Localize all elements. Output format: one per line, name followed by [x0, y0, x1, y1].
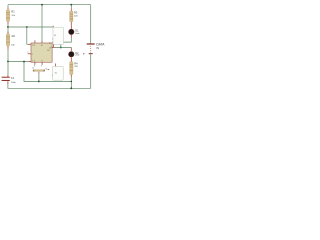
node E junction: [60, 46, 62, 48]
wire R4 to bus2: [70, 78, 72, 89]
svg-text:R1: R1: [11, 10, 15, 14]
LED D1: [69, 29, 74, 34]
svg-text:C1: C1: [11, 76, 15, 80]
svg-text:R2: R2: [12, 34, 16, 38]
wire D1 to IC pin 15r: [55, 38, 72, 43]
node F junction: [71, 81, 73, 83]
svg-text:D2: D2: [75, 52, 79, 55]
svg-text:D1: D1: [75, 29, 79, 32]
svg-text:10k: 10k: [11, 15, 15, 17]
wire from node A to IC pin 1: [8, 26, 53, 28]
ground module pin stub: [55, 64, 57, 67]
IC U1 pin 2 stub left: [28, 53, 31, 55]
connector J1 pin bar 2: [89, 53, 93, 54]
wire left bus mid: [7, 27, 9, 34]
relay K1 pin stub top: [52, 26, 54, 28]
wire left bus to node A: [7, 25, 9, 27]
wire left bus to C1: [7, 61, 9, 75]
wire node C down to bus1: [24, 62, 39, 82]
svg-text:R4: R4: [74, 61, 78, 65]
svg-text:IN: IN: [96, 46, 99, 50]
wire top bus: [8, 4, 91, 6]
wire node B to IC pin 3: [8, 61, 28, 63]
resistor R2: [6, 34, 9, 47]
svg-text:15: 15: [49, 42, 51, 44]
svg-text:10k: 10k: [11, 45, 15, 47]
resistor R2 lead bottom: [7, 46, 9, 50]
node G junction: [70, 87, 72, 89]
switch S1 body: [33, 70, 45, 72]
wire left bus bottom corner: [8, 84, 91, 88]
IC U1 pin 9 stub bottom: [41, 62, 43, 65]
svg-text:9: 9: [41, 65, 42, 67]
node A junction: [7, 26, 9, 28]
op-amp U1 body: [31, 43, 52, 62]
switch S1 stub right: [48, 68, 50, 71]
svg-text:8: 8: [34, 65, 35, 67]
capacitor C1 lead top: [7, 75, 9, 77]
relay K1 box: [53, 27, 64, 44]
wire right bus lower: [90, 54, 92, 88]
LED D2 lead top: [70, 47, 72, 51]
wire bus1: [39, 80, 71, 82]
node D junction on bus1: [38, 80, 40, 82]
svg-text:100n: 100n: [11, 82, 17, 84]
IC U1 pin 15r stub right: [52, 41, 55, 43]
switch S1 pin stub: [38, 72, 40, 74]
resistor R2 lead top: [7, 32, 9, 34]
resistor R3: [70, 11, 73, 22]
IC U1 pin 14 stub right: [52, 46, 55, 48]
svg-text:DATA: DATA: [96, 42, 105, 46]
LED D2: [69, 52, 74, 57]
svg-text:12: 12: [32, 67, 34, 69]
pin mark: [83, 53, 84, 54]
node top2 junction: [70, 4, 72, 6]
wire node H to IC pin 1: [27, 27, 28, 44]
IC U1 pin 16 stub top: [41, 40, 43, 43]
IC U1 pin 8 stub bottom: [34, 62, 36, 65]
wire left bus to node B: [7, 50, 9, 62]
wire right bus upper: [90, 5, 92, 44]
wire vertical link: [60, 42, 62, 47]
capacitor C1: [2, 77, 10, 81]
ratsnest dashed link: [90, 46, 92, 53]
IC U1 pin 3 stub left: [28, 61, 31, 63]
ground module box: [52, 66, 63, 80]
wire IC pin 14 to D2: [55, 46, 72, 48]
resistor R1 lead bottom: [7, 22, 9, 25]
node H junction: [26, 26, 28, 28]
resistor R3 lead top: [70, 8, 72, 11]
relay K1 pin stub: [52, 44, 54, 47]
wire left bus upper: [7, 5, 9, 8]
capacitor C1 lead bottom: [7, 81, 9, 84]
svg-text:220: 220: [74, 66, 78, 68]
connector J1 pin bar: [87, 43, 95, 44]
IC U1 pin 1 stub left: [28, 43, 31, 45]
LED D1 lead bottom: [70, 35, 72, 38]
resistor R3 lead bottom: [70, 22, 72, 29]
resistor R1 lead top: [7, 7, 9, 9]
node top1 junction: [41, 4, 43, 6]
IC U1 pin 15 stub top: [34, 40, 36, 43]
node C junction: [23, 61, 25, 63]
svg-text:R3: R3: [74, 11, 78, 15]
wire top bus to IC pin 16: [41, 5, 43, 41]
resistor R4 lead bottom: [70, 75, 72, 78]
resistor R4: [70, 62, 73, 75]
LED D2 lead bottom: [70, 57, 72, 61]
wire top bus to R3: [70, 5, 72, 9]
svg-text:S1: S1: [45, 68, 47, 70]
node B junction: [7, 60, 9, 62]
svg-text:220: 220: [74, 15, 78, 17]
resistor R1: [6, 10, 9, 22]
wire S1 to bus1: [38, 74, 40, 82]
